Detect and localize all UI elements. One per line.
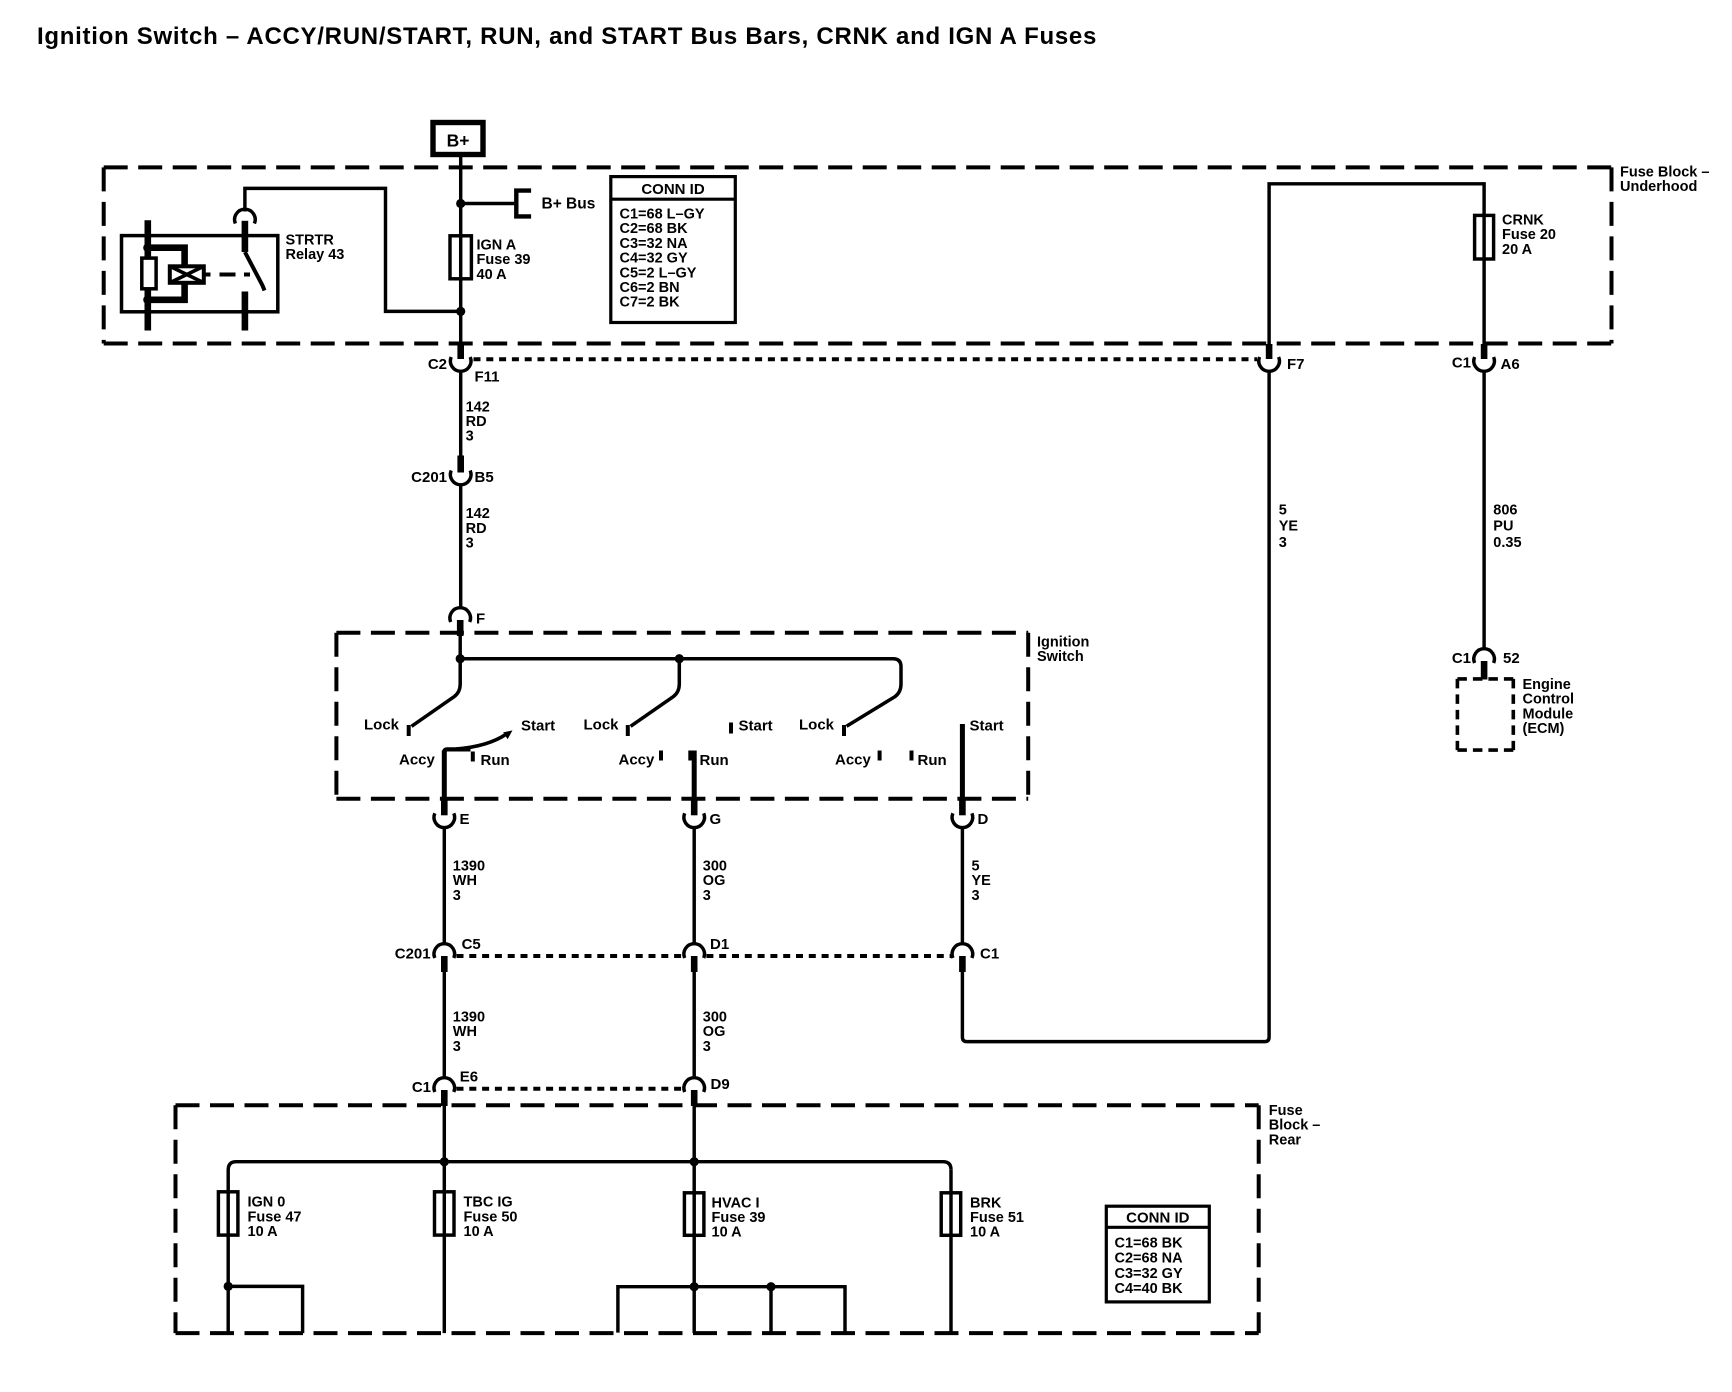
- junction dot coil bottom: [143, 295, 152, 304]
- fuse BRK Fuse 51: [941, 1193, 961, 1236]
- svg-text:OG: OG: [703, 1024, 726, 1040]
- fuse IGN 0 Fuse 47: [218, 1192, 238, 1235]
- wire 806 PU: [1482, 370, 1485, 650]
- fuse HVAC I Fuse 39: [684, 1193, 704, 1236]
- Accy contact tick 2: [659, 751, 663, 761]
- connector F7: [1259, 344, 1305, 373]
- svg-text:C2: C2: [428, 356, 447, 373]
- svg-text:C3=32 NA: C3=32 NA: [620, 236, 689, 252]
- Run contact tick 3: [910, 751, 914, 761]
- svg-text:1390: 1390: [453, 859, 485, 875]
- svg-text:806: 806: [1493, 503, 1517, 519]
- relay coil pin (left) lower stub: [145, 288, 152, 330]
- ECM dashed box: [1457, 679, 1513, 750]
- switch output wire E (accy/run/start): [442, 751, 447, 799]
- wire to B+ Bus: [461, 202, 517, 205]
- svg-text:300: 300: [703, 859, 727, 875]
- wire CRNK feed: [1269, 184, 1484, 357]
- svg-text:D: D: [978, 811, 989, 828]
- svg-text:Fuse 50: Fuse 50: [464, 1209, 518, 1225]
- svg-text:Fuse Block –: Fuse Block –: [1620, 165, 1709, 181]
- Lock contact tick 3: [842, 725, 846, 736]
- switch output wire D (start): [960, 724, 965, 799]
- wire B+ stem: [459, 157, 462, 345]
- svg-text:Accy: Accy: [619, 752, 656, 769]
- dotted harness line C2 to F7: [474, 357, 1258, 361]
- svg-text:Fuse 39: Fuse 39: [712, 1210, 766, 1226]
- fuse block rear dashed box: [176, 1105, 1259, 1333]
- svg-text:C1: C1: [1452, 650, 1471, 667]
- svg-text:(ECM): (ECM): [1523, 721, 1565, 737]
- svg-text:Relay 43: Relay 43: [286, 247, 345, 263]
- ignition switch dashed box: [336, 633, 1028, 799]
- junction dot bus HVAC: [690, 1157, 699, 1166]
- dotted C201 line D1 to C1: [706, 954, 951, 958]
- svg-text:RD: RD: [466, 521, 487, 537]
- svg-text:B5: B5: [475, 469, 494, 486]
- IGN 0 branch wire: [228, 1286, 302, 1333]
- svg-text:10 A: 10 A: [464, 1224, 495, 1240]
- svg-text:E: E: [460, 811, 470, 828]
- wire 142 RD upper: [459, 370, 462, 456]
- svg-text:G: G: [710, 811, 722, 828]
- wire 142 RD lower: [459, 484, 462, 610]
- svg-text:C5=2 L–GY: C5=2 L–GY: [620, 265, 697, 281]
- connector F: [450, 608, 485, 636]
- junction dot HVAC branch: [690, 1282, 699, 1291]
- svg-text:20 A: 20 A: [1502, 242, 1533, 258]
- svg-text:3: 3: [466, 535, 474, 551]
- svg-text:C7=2 BK: C7=2 BK: [620, 295, 681, 311]
- svg-text:5: 5: [972, 859, 980, 875]
- svg-text:F11: F11: [475, 369, 500, 386]
- svg-text:1390: 1390: [453, 1010, 485, 1026]
- svg-text:10 A: 10 A: [712, 1225, 743, 1241]
- svg-text:5: 5: [1279, 503, 1287, 519]
- svg-text:Fuse: Fuse: [1269, 1103, 1303, 1119]
- connector G: [684, 799, 721, 828]
- connector C1/A6: [1452, 344, 1520, 373]
- svg-text:YE: YE: [1279, 519, 1299, 535]
- junction dot bus TBC: [440, 1157, 449, 1166]
- junction dot HVAC branch mid: [766, 1282, 775, 1291]
- svg-text:Ignition Switch – ACCY/RUN/STA: Ignition Switch – ACCY/RUN/START, RUN, a…: [37, 23, 1097, 50]
- wire 300 OG lower: [692, 972, 695, 1078]
- wire E6 into rear block: [443, 1106, 446, 1162]
- svg-text:C4=32 GY: C4=32 GY: [620, 251, 688, 267]
- svg-text:Fuse 47: Fuse 47: [248, 1209, 302, 1225]
- svg-text:Accy: Accy: [399, 752, 436, 769]
- switch pole 2 drop to Lock: [631, 659, 680, 727]
- connector D1: [684, 936, 729, 972]
- svg-text:BRK: BRK: [970, 1195, 1002, 1211]
- svg-text:3: 3: [466, 429, 474, 445]
- junction dot relay feed: [456, 307, 465, 316]
- B+ power symbol: [433, 123, 483, 155]
- svg-text:Module: Module: [1523, 706, 1574, 722]
- svg-text:3: 3: [972, 888, 980, 904]
- connector C2/F11: [428, 344, 500, 386]
- ignition switch bus bar wire: [460, 659, 901, 727]
- svg-text:A6: A6: [1501, 356, 1520, 373]
- svg-text:3: 3: [703, 1039, 711, 1055]
- wire YE riser (F7 down): [962, 370, 1269, 1042]
- relay box: [122, 236, 278, 312]
- svg-text:Start: Start: [970, 718, 1004, 735]
- junction dot B+ bus tap: [456, 199, 465, 208]
- svg-text:CONN ID: CONN ID: [641, 181, 705, 198]
- relay coil pin (left) upper stub: [145, 220, 152, 258]
- svg-text:C1=68 BK: C1=68 BK: [1115, 1235, 1184, 1251]
- svg-text:C6=2 BN: C6=2 BN: [620, 280, 680, 296]
- Start contact tick 2: [729, 723, 733, 734]
- connector C201/C5: [395, 936, 481, 972]
- wire from relay switch to IGN A feed: [245, 188, 458, 311]
- svg-text:C1: C1: [412, 1079, 431, 1096]
- dotted line E6 to D9: [457, 1087, 684, 1091]
- wire 1390 WH upper: [443, 827, 446, 944]
- switch pole 1 drop to Lock: [412, 659, 461, 727]
- svg-text:D9: D9: [711, 1076, 730, 1093]
- BRK column wire: [949, 1170, 952, 1333]
- svg-text:C5: C5: [462, 936, 481, 953]
- Run contact tick 2: [688, 751, 692, 761]
- dotted C201 line C5 to D1: [457, 954, 684, 958]
- svg-text:RD: RD: [466, 414, 487, 430]
- svg-text:40 A: 40 A: [477, 267, 508, 283]
- connector C1 (C201 row): [952, 944, 999, 972]
- Lock contact tick 1: [407, 725, 411, 736]
- TBC IG column wire: [443, 1162, 446, 1333]
- connector D9: [684, 1076, 730, 1106]
- HVAC I column wire: [692, 1162, 695, 1333]
- svg-text:Underhood: Underhood: [1620, 179, 1697, 195]
- svg-text:E6: E6: [460, 1069, 478, 1086]
- svg-text:10 A: 10 A: [970, 1225, 1001, 1241]
- svg-text:F: F: [476, 611, 485, 628]
- wire 300 OG upper: [692, 827, 695, 944]
- svg-text:Fuse 39: Fuse 39: [477, 252, 531, 268]
- svg-text:C3=32 GY: C3=32 GY: [1115, 1266, 1183, 1282]
- svg-text:C1=68 L–GY: C1=68 L–GY: [620, 207, 705, 223]
- svg-text:Block –: Block –: [1269, 1118, 1321, 1134]
- svg-text:300: 300: [703, 1010, 727, 1026]
- svg-text:HVAC I: HVAC I: [712, 1195, 760, 1211]
- svg-text:Fuse 51: Fuse 51: [970, 1210, 1024, 1226]
- svg-text:3: 3: [703, 888, 711, 904]
- fuse CRNK Fuse 20: [1475, 215, 1494, 259]
- B+ Bus bracket: [516, 191, 531, 217]
- relay switch blade: [245, 252, 265, 291]
- svg-text:IGN 0: IGN 0: [248, 1195, 286, 1211]
- svg-text:Run: Run: [481, 752, 510, 769]
- svg-text:Ignition: Ignition: [1037, 635, 1089, 651]
- coil box with X: [170, 266, 204, 283]
- svg-text:3: 3: [453, 1039, 461, 1055]
- svg-text:Lock: Lock: [364, 717, 400, 734]
- svg-text:142: 142: [466, 399, 490, 415]
- coil wire top loop: [148, 248, 185, 267]
- relay connector arc: [235, 209, 256, 223]
- connector C1/52 (ECM): [1452, 649, 1520, 680]
- svg-text:10 A: 10 A: [248, 1224, 279, 1240]
- svg-text:YE: YE: [972, 873, 992, 889]
- svg-text:Switch: Switch: [1037, 649, 1084, 665]
- connector E: [434, 799, 470, 828]
- junction dot coil top: [143, 243, 152, 252]
- wire 1390 WH lower: [443, 972, 446, 1078]
- svg-text:3: 3: [453, 888, 461, 904]
- svg-text:142: 142: [466, 506, 490, 522]
- svg-text:STRTR: STRTR: [286, 233, 335, 249]
- fuse block underhood dashed box: [104, 167, 1612, 343]
- svg-text:C201: C201: [411, 469, 447, 486]
- svg-text:0.35: 0.35: [1493, 535, 1521, 551]
- svg-text:F7: F7: [1287, 356, 1305, 373]
- svg-text:Control: Control: [1523, 692, 1575, 708]
- svg-text:OG: OG: [703, 873, 726, 889]
- svg-text:Lock: Lock: [584, 717, 620, 734]
- svg-text:Lock: Lock: [799, 717, 835, 734]
- relay switch pin upper: [242, 221, 249, 252]
- svg-text:Start: Start: [521, 718, 555, 735]
- svg-text:Run: Run: [918, 752, 947, 769]
- connector C1/E6: [412, 1069, 478, 1107]
- Run contact tick 1: [471, 752, 475, 762]
- wire 5 YE upper: [961, 827, 964, 944]
- svg-text:3: 3: [1279, 535, 1287, 551]
- wire F into switch: [458, 636, 461, 659]
- ACCY/RUN/START bus bar strap: [444, 749, 470, 761]
- IGN 0 column wire: [226, 1170, 229, 1333]
- svg-text:Start: Start: [739, 718, 773, 735]
- fuse TBC IG Fuse 50: [435, 1192, 455, 1235]
- svg-text:52: 52: [1503, 650, 1520, 667]
- Lock contact tick 2: [626, 725, 630, 736]
- svg-text:Accy: Accy: [835, 752, 872, 769]
- svg-text:C201: C201: [395, 946, 431, 963]
- relay switch bottom contact: [242, 292, 249, 331]
- svg-text:B+ Bus: B+ Bus: [542, 196, 596, 213]
- svg-text:Engine: Engine: [1523, 677, 1571, 693]
- wire D9 into rear block: [692, 1106, 695, 1162]
- svg-text:B+: B+: [447, 131, 470, 151]
- mechanical link dashes: [204, 273, 250, 277]
- resistor inside relay: [142, 258, 156, 289]
- svg-text:WH: WH: [453, 1024, 477, 1040]
- svg-text:C2=68 NA: C2=68 NA: [1115, 1251, 1184, 1267]
- svg-text:IGN A: IGN A: [477, 238, 517, 254]
- fuse IGN A Fuse 39: [450, 236, 471, 279]
- coil wire bottom loop: [148, 283, 185, 300]
- junction dot bus at pole 2: [675, 654, 684, 663]
- svg-text:C2=68 BK: C2=68 BK: [620, 221, 689, 237]
- bus bar blade curve to Start: [456, 734, 507, 749]
- CONN ID table (underhood): [611, 177, 736, 323]
- connector C201/B5: [411, 456, 494, 487]
- svg-text:PU: PU: [1493, 519, 1513, 535]
- svg-text:Run: Run: [700, 752, 729, 769]
- svg-text:C1: C1: [980, 946, 999, 963]
- svg-text:TBC IG: TBC IG: [464, 1195, 513, 1211]
- rear block bus wire: [228, 1162, 951, 1170]
- connector D: [952, 799, 988, 828]
- HVAC branch bar wire: [618, 1287, 845, 1333]
- svg-text:CRNK: CRNK: [1502, 213, 1544, 229]
- svg-text:Fuse 20: Fuse 20: [1502, 227, 1556, 243]
- svg-text:D1: D1: [710, 936, 729, 953]
- svg-text:CONN ID: CONN ID: [1126, 1209, 1190, 1226]
- relay STRTR Relay 43: [122, 209, 345, 330]
- svg-text:C1: C1: [1452, 355, 1471, 372]
- CONN ID table (rear): [1106, 1206, 1209, 1302]
- HVAC branch mid stub wire: [769, 1287, 772, 1333]
- svg-text:WH: WH: [453, 873, 477, 889]
- svg-text:Rear: Rear: [1269, 1132, 1302, 1148]
- svg-text:C4=40 BK: C4=40 BK: [1115, 1281, 1184, 1297]
- switch output wire G (run): [692, 751, 697, 799]
- junction dot IGN 0 branch: [224, 1282, 233, 1291]
- blade arrowhead: [503, 730, 512, 739]
- junction dot bus at pole 1: [456, 654, 465, 663]
- Accy contact tick 3: [878, 751, 882, 761]
